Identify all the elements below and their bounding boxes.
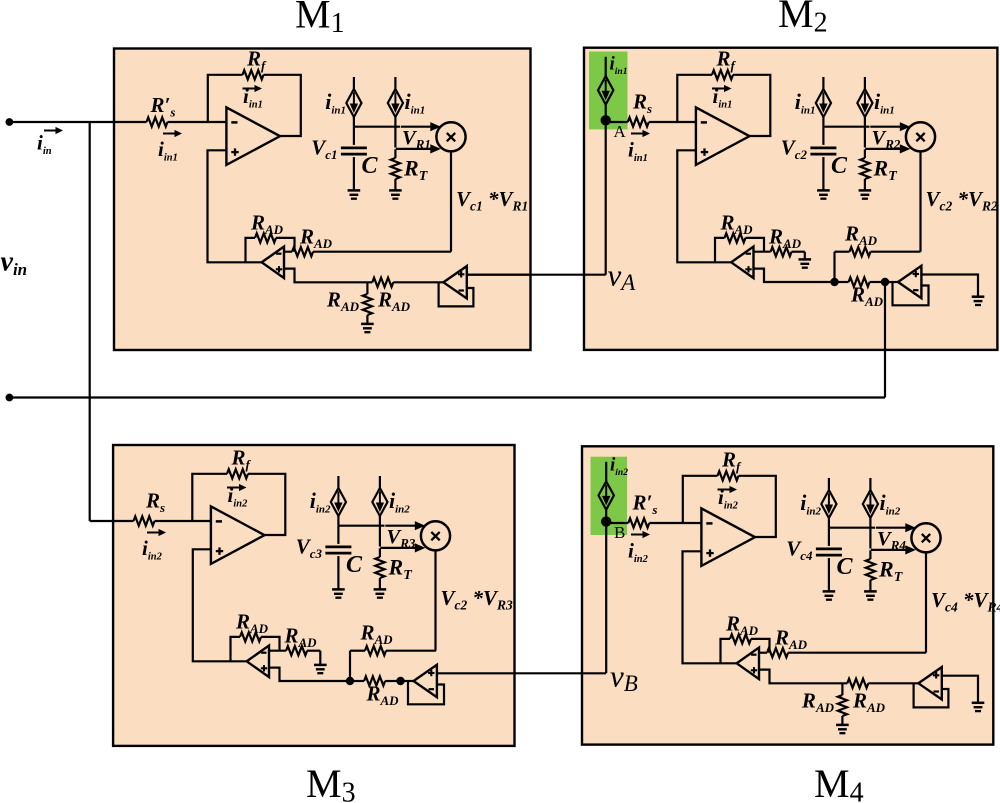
svg-text:C: C [831, 153, 848, 179]
title M4 [814, 761, 864, 803]
label vA [608, 258, 637, 296]
wire node2 to buffer (M2) [885, 281, 898, 283]
resistor R_AD feedback (M1) [255, 233, 276, 242]
label V_R2 (M2) [872, 127, 901, 152]
label C (M4) [837, 554, 854, 580]
label i_in1 at left source (M1) [325, 89, 346, 117]
wire + input to buffer (M1) [284, 269, 443, 283]
wire node1 to node2 (M3) [350, 680, 401, 682]
wire - input through R_AD to ground (M3) [269, 651, 320, 665]
title M1 [295, 0, 345, 39]
wire right source to R_T (M2) [864, 117, 866, 148]
resistor R's M4 [628, 518, 649, 527]
wire node bus (M3) [338, 516, 384, 526]
label R_AD lower (M2) [850, 283, 884, 310]
ground below R_T (M2) [859, 190, 872, 198]
label R_AD series (M2) [768, 225, 802, 252]
wire capacitor to ground (M3) [337, 556, 339, 589]
wire buffer feedback (M2) [893, 282, 929, 305]
label V_c2 *V_R3 (M3) [441, 586, 514, 613]
label i_in1 at right source (M2) [874, 89, 895, 117]
label V_R4 (M4) [877, 528, 906, 553]
resistor R_AD series (M4) [767, 648, 788, 657]
resistor R_AD lower (M2) [849, 277, 870, 286]
resistor R_AD series (M1) [292, 247, 313, 256]
resistor R_T (M4) [866, 559, 875, 580]
wire node1 to node2 (M2) [835, 281, 886, 283]
label R_AD feedback (M4) [725, 612, 759, 639]
resistor R_AD feedback (M3) [240, 632, 261, 641]
wire + input to node 1 (M3) [269, 668, 350, 681]
current arrow i_in [44, 127, 63, 134]
op-amp U1b (difference amp, points left) (M1) [262, 247, 284, 278]
label R_T (M2) [873, 156, 899, 185]
label R's M4 [632, 491, 658, 518]
svg-text:C: C [346, 552, 363, 578]
current arrow i_in1 M2 [631, 130, 650, 137]
current source i_in1 right (M2) [857, 77, 872, 117]
capacitor C (M3) [325, 547, 351, 553]
arrow into multiplier input 2 (M2) [865, 144, 910, 153]
wire buffer feedback (M1) [439, 282, 474, 306]
wire node 1 up through R_AD to multiplier line (M2) [835, 252, 921, 282]
svg-text:B: B [614, 523, 625, 542]
wire buffer feedback (M4) [914, 683, 949, 707]
ground below R_T (M4) [864, 591, 877, 599]
current arrow under Rf (M4) [718, 486, 738, 493]
multiplier X (M1) [436, 122, 465, 151]
arrow into multiplier input 1 (M1) [401, 122, 441, 131]
label i_in2 green M4 [610, 455, 628, 479]
ground below capacitor (M2) [817, 190, 830, 198]
resistor R_AD upper (M3) [365, 646, 386, 655]
wire to capacitor (M3) [337, 526, 339, 544]
label R_AD feedback (M2) [720, 211, 754, 238]
module box M3 [113, 445, 514, 746]
label i_in1 M1 [158, 137, 178, 164]
input terminal node (top) [5, 118, 13, 126]
wire R_T to ground (M1) [394, 179, 396, 190]
current source i_in2 left (M4) [821, 478, 836, 518]
wire Rf feedback loop (M2) [677, 75, 770, 136]
current arrow under Rf (M1) [243, 85, 263, 92]
label A M2 [614, 122, 627, 141]
arrow into multiplier input 1 (M4) [876, 523, 916, 532]
wire node A down (vA) M2 [605, 122, 607, 275]
op-amp U4a (main op-amp) [701, 508, 755, 566]
wire node bus (M4) [829, 518, 875, 528]
label B M4 [614, 523, 625, 542]
svg-text:C: C [362, 153, 379, 179]
wire right source to R_T (M4) [869, 518, 871, 549]
op-amp U4b (difference amp, points left) (M4) [737, 648, 759, 680]
wire right source to R_T (M3) [379, 516, 381, 547]
label V_c4 (M4) [786, 537, 813, 564]
wire M2 buffer + input to ground [921, 275, 978, 297]
label V_R1 (M1) [402, 127, 431, 152]
wire capacitor to ground (M4) [828, 558, 830, 591]
wire R_s to op-amp M3 [155, 520, 211, 522]
wire node 1 up through R_AD to multiplier line (M3) [350, 651, 436, 681]
wire junction to vertical R_AD (M4) [841, 683, 843, 695]
resistor R_AD horizontal (M1) [372, 278, 393, 287]
op-amp U3a (main op-amp) [211, 506, 265, 564]
arrow into multiplier input 1 (M3) [385, 521, 425, 530]
ground below vertical R_AD (M4) [836, 725, 849, 733]
wire V_R tap (M4) [869, 550, 871, 559]
wire Rf feedback loop (M4) [683, 476, 776, 537]
svg-text:A: A [614, 122, 627, 141]
resistor R_T (M2) [860, 158, 869, 179]
node B junction M4 [601, 516, 611, 526]
resistor R_AD upper (M2) [850, 247, 871, 256]
label i_in2 at left source (M3) [310, 488, 331, 516]
current arrow i_in1 M1 [163, 130, 182, 137]
wire node A to R_s M2 [610, 121, 628, 123]
current source i_in2 left (M3) [331, 476, 346, 516]
current source i_in2 right (M3) [372, 476, 387, 516]
label i_in2 M4 [628, 539, 649, 566]
wire op-amp + input to lower op-amp (M3) [193, 549, 247, 661]
wire v_in to M1 R's [9, 121, 146, 123]
module box M2 [584, 48, 997, 350]
op-amp U2a (main op-amp) [696, 107, 750, 164]
resistor R_AD vertical (M4) [838, 695, 847, 716]
ground below R_T (M1) [389, 190, 402, 198]
label v_in [1, 247, 28, 280]
title M3 [306, 761, 356, 803]
module box M4 [582, 446, 993, 744]
label R_AD horizontal (M1) [377, 288, 411, 315]
resistor R_AD horizontal (M4) [847, 679, 868, 688]
current source i_in2 right (M4) [863, 478, 878, 518]
current source i_in2 green M4 [599, 462, 614, 510]
buffer op-amp U2c (M2) [898, 266, 921, 298]
wire capacitor to ground (M2) [822, 157, 824, 190]
wire V_R tap (M3) [379, 548, 381, 557]
op-amp U2b (difference amp, points left) (M2) [731, 247, 753, 278]
label R_AD upper (M3) [360, 621, 394, 648]
current arrow under Rf (M2) [712, 85, 732, 92]
current source i_in1 left (M1) [346, 77, 361, 117]
resistor R_AD vertical (M1) [363, 294, 372, 315]
wire multiplier output (M3) [434, 550, 436, 650]
ground below vertical R_AD (M1) [361, 324, 374, 332]
ground below capacitor (M1) [348, 190, 361, 198]
wire M3 buffer + input to border [436, 672, 438, 674]
wire op-amp + input to lower op-amp (M1) [208, 150, 262, 262]
svg-text:C: C [837, 554, 854, 580]
resistor R's M1 [147, 117, 168, 126]
wire R_AD feedback loop (M4) [721, 639, 770, 663]
label R_AD upper (M2) [844, 222, 878, 249]
ground below capacitor (M3) [332, 589, 345, 597]
label R_AD feedback (M3) [235, 610, 269, 637]
wire node bus (M2) [823, 117, 869, 127]
multiplier X (M2) [906, 122, 935, 151]
label i_in [37, 131, 52, 158]
wire to capacitor (M4) [828, 528, 830, 546]
wire R_T to ground (M4) [869, 580, 871, 591]
wire to capacitor (M2) [822, 127, 824, 145]
wire vertical R_AD to ground (M4) [841, 716, 843, 725]
label R_AD vertical (M1) [326, 288, 360, 315]
capacitor C (M4) [816, 549, 842, 555]
wire multiplier output (M1) [450, 151, 452, 251]
wire right source to R_T (M1) [394, 117, 396, 148]
label i_in1 under Rf (M2) [713, 84, 733, 111]
wire V_R tap (M2) [864, 149, 866, 158]
current arrow i_in2 M3 [147, 529, 166, 536]
label Rf (M3) [231, 446, 252, 473]
wire buffer feedback (M3) [408, 681, 444, 704]
wire - input to multiplier line (M1) [284, 251, 451, 253]
ground below R_T (M3) [374, 589, 387, 597]
wire green source to node B M4 [605, 510, 607, 523]
label R's M1 [150, 93, 176, 120]
label Rf (M2) [716, 47, 737, 74]
input terminal node (bottom) [5, 394, 13, 402]
wire capacitor to ground (M1) [353, 157, 355, 190]
arrow into multiplier input 1 (M2) [870, 122, 910, 131]
resistor Rf (M2) [712, 70, 733, 79]
current arrow under Rf (M3) [227, 484, 247, 491]
wire op-amp + input to lower op-amp (M4) [683, 551, 737, 663]
green highlight M2 [589, 52, 628, 130]
wire multiplier output (M4) [925, 552, 927, 652]
wire Rf feedback loop (M3) [192, 474, 285, 535]
wire Rf feedback loop (M1) [208, 75, 301, 136]
label V_c3 (M3) [296, 535, 323, 562]
label i_in1 at left source (M2) [795, 89, 816, 117]
label i_in1 M2 [628, 138, 648, 165]
resistor R_AD lower (M3) [364, 676, 385, 685]
resistor R_T (M1) [391, 158, 400, 179]
wire R's to op-amp M1 [168, 121, 227, 123]
multiplier X (M3) [421, 521, 450, 550]
module box M1 [114, 49, 531, 351]
node junction 2 (M3) [396, 677, 404, 685]
label i_in1 green M2 [610, 54, 628, 78]
wire - input to multiplier line (M4) [759, 652, 926, 654]
wire node B to R's M4 [611, 522, 629, 524]
wire node2 to buffer (M3) [401, 680, 414, 682]
wire R_T to ground (M3) [379, 578, 381, 589]
arrow into multiplier input 2 (M1) [396, 144, 441, 153]
label V_c4 *V_R4 (M4) [931, 588, 1000, 615]
resistor Rf (M3) [227, 469, 248, 478]
current arrow i_in2 M4 [631, 531, 650, 538]
green highlight M4 [591, 457, 628, 535]
resistor Rf (M1) [243, 70, 264, 79]
wire - input through R_AD to ground (M2) [754, 252, 805, 259]
label i_in2 M3 [142, 536, 163, 563]
resistor R_s M3 [134, 516, 155, 525]
multiplier X (M4) [911, 523, 940, 552]
label R_s M3 [145, 489, 165, 516]
label V_c1 (M1) [311, 136, 337, 163]
current source i_in1 green M2 [598, 57, 613, 105]
label i_in2 under Rf (M4) [718, 485, 739, 512]
label V_c1 *V_R1 (M1) [456, 187, 528, 214]
buffer op-amp U3c (M3) [414, 665, 437, 697]
wire + input to buffer (M4) [759, 670, 918, 684]
arrow into multiplier input 2 (M4) [871, 545, 916, 554]
node A junction M2 [601, 115, 611, 125]
wire green source to node A M2 [605, 104, 607, 122]
label R_AD feedback (M1) [250, 211, 284, 238]
wire R's to op-amp M4 [649, 522, 701, 524]
current source i_in1 left (M2) [816, 77, 831, 117]
wire branch down to M3 [90, 122, 134, 521]
arrow into multiplier input 2 (M3) [380, 543, 425, 552]
label i_in2 at left source (M4) [800, 490, 821, 518]
wire multiplier output (M2) [919, 151, 921, 251]
label R_s M2 [632, 90, 652, 117]
wire M1 buffer input stub [467, 274, 531, 276]
label C (M3) [346, 552, 363, 578]
label i_in2 at right source (M4) [880, 490, 901, 518]
label R_AD series (M4) [774, 626, 808, 653]
wire + input to node 1 (M2) [754, 269, 835, 282]
label vB [610, 659, 638, 697]
ground at M2 buffer input [972, 297, 985, 305]
wire vA to M1 buffer [467, 274, 606, 276]
label R_AD lower (M3) [366, 682, 400, 709]
wire R_s to op-amp M2 [649, 121, 696, 123]
resistor R_s M2 [628, 117, 649, 126]
label V_R3 (M3) [387, 526, 416, 551]
label R_T (M3) [388, 555, 414, 584]
capacitor C (M1) [341, 148, 367, 154]
label C (M2) [831, 153, 848, 179]
resistor Rf (M4) [718, 471, 739, 480]
resistor R_AD series (M3) [286, 646, 307, 655]
label C (M1) [362, 153, 379, 179]
label i_in2 at right source (M3) [389, 488, 410, 516]
label R_AD horizontal (M4) [852, 689, 886, 716]
wire R_AD feedback loop (M2) [715, 238, 764, 262]
label i_in2 under Rf (M3) [228, 483, 249, 510]
buffer op-amp U4c (M4) [918, 667, 941, 699]
label i_in1 under Rf (M1) [243, 84, 263, 111]
wire feedback bus (bottom terminal to M2) [9, 396, 885, 398]
wire op-amp + input to lower op-amp (M2) [677, 150, 731, 262]
label R_AD vertical (M4) [801, 689, 835, 716]
label V_c2 *V_R2 (M2) [926, 187, 999, 214]
wire R_T to ground (M2) [864, 179, 866, 190]
resistor R_AD feedback (M4) [730, 634, 751, 643]
node junction 2 (M2) [881, 278, 889, 286]
ground below series R_AD (M3) [314, 665, 327, 673]
node junction 1 (M3) [346, 677, 354, 685]
label Rf (M1) [246, 47, 267, 74]
title M2 [778, 0, 828, 39]
capacitor C (M2) [810, 148, 836, 154]
label R_AD series (M3) [284, 624, 318, 651]
wire vertical R_AD to ground (M1) [366, 315, 368, 324]
buffer op-amp U1c (M1) [443, 266, 466, 298]
wire to capacitor (M1) [353, 127, 355, 145]
wire node bus (M1) [354, 117, 400, 127]
label Rf (M4) [721, 448, 742, 475]
op-amp U1a (main op-amp) [226, 107, 280, 164]
ground below capacitor (M4) [823, 591, 836, 599]
current source i_in1 right (M1) [388, 77, 403, 117]
resistor R_AD feedback (M2) [725, 233, 746, 242]
op-amp U3b (difference amp, points left) (M3) [247, 646, 269, 678]
ground below series R_AD (M2) [799, 259, 812, 267]
label R_AD series (M1) [299, 225, 333, 252]
wire M4 buffer + input to ground [942, 676, 978, 703]
wire node B down (vB) M4 [605, 523, 607, 673]
label V_c2 (M2) [781, 136, 808, 163]
label R_T (M4) [878, 557, 904, 586]
label i_in1 at right source (M1) [405, 89, 426, 117]
wire junction to vertical R_AD (M1) [366, 282, 368, 294]
wire R_AD feedback loop (M1) [246, 238, 295, 262]
node junction 1 (M2) [830, 278, 838, 286]
label R_T (M1) [403, 156, 429, 185]
resistor R_AD series (M2) [771, 247, 792, 256]
wire M2 node2 down to feedback bus [884, 282, 886, 398]
resistor R_T (M3) [375, 557, 384, 578]
wire V_R tap (M1) [394, 149, 396, 158]
ground at M4 buffer input [972, 703, 985, 711]
wire vB to M3 buffer [437, 672, 606, 674]
wire R_AD feedback loop (M3) [231, 637, 280, 661]
